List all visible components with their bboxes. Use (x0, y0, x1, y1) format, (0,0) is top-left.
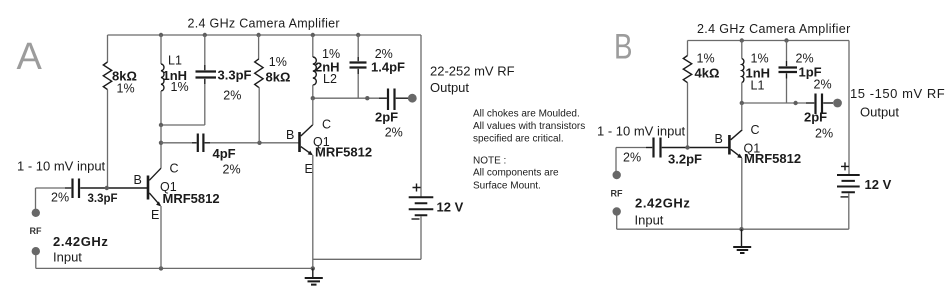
node dot ground junction B (739, 227, 743, 231)
svg-text:C: C (322, 118, 331, 132)
capacitor 4pF coupling (192, 134, 210, 153)
wire ground terminal drop A (35, 255, 37, 268)
svg-text:1.4pF: 1.4pF (371, 60, 405, 75)
svg-text:specified are critical.: specified are critical. (473, 133, 564, 144)
node dot rail B at 1pF (784, 38, 788, 42)
svg-text:2%: 2% (223, 163, 241, 177)
wire battery A bottom vertical (420, 216, 422, 259)
svg-text:3.3pF: 3.3pF (88, 193, 118, 205)
node dot rail A at 1.4pF (356, 33, 360, 37)
svg-text:All components are: All components are (473, 168, 559, 179)
wire input left segment B (616, 147, 646, 149)
svg-text:1%: 1% (269, 55, 287, 69)
wire collector stage 2 (312, 98, 314, 125)
svg-text:E: E (305, 162, 313, 176)
terminal RF input B (613, 171, 621, 179)
wire input RF terminal drop A (35, 188, 37, 209)
wire Vcc rail A (108, 34, 422, 36)
svg-text:A: A (17, 36, 43, 78)
wire battery A top vertical (420, 35, 422, 197)
ground symbol B (733, 229, 751, 253)
svg-text:1%: 1% (171, 80, 189, 94)
svg-text:1%: 1% (751, 52, 769, 66)
wire input RF terminal drop B (615, 148, 617, 172)
svg-text:12 V: 12 V (437, 200, 464, 215)
node dot output line B (793, 101, 797, 105)
wire emitter B down (741, 158, 743, 229)
wire ground terminal drop B (616, 216, 618, 230)
resistor R2 8kOhm bias stage 2 (255, 35, 263, 143)
node dot output line A (365, 96, 369, 100)
wire output line B (742, 102, 806, 104)
node dot output at L2 bottom (311, 96, 315, 100)
svg-text:1 - 10 mV input: 1 - 10 mV input (17, 159, 106, 174)
node dot emitter stage 1 at ground rail (159, 266, 163, 270)
terminal ground input A (32, 247, 40, 255)
svg-text:Input: Input (635, 213, 664, 228)
wire emitter stage 2 down (312, 155, 314, 268)
svg-text:4kΩ: 4kΩ (695, 66, 720, 81)
svg-text:12 V: 12 V (865, 177, 892, 192)
node dot rail A at L2 (311, 33, 315, 37)
wire emitter stage 1 down (160, 206, 162, 268)
svg-text:B: B (286, 128, 294, 142)
capacitor 2pF output coupling B (806, 94, 833, 115)
node dot base node stage 2 (257, 141, 261, 145)
node dot base node B (685, 145, 689, 149)
svg-text:Input: Input (53, 250, 82, 265)
svg-text:2%: 2% (815, 127, 833, 141)
svg-text:2%: 2% (223, 89, 241, 103)
capacitor 2pF output coupling A (379, 89, 408, 111)
wire collector B (741, 103, 743, 130)
node dot 4pF tap (159, 141, 163, 145)
svg-text:B: B (134, 173, 142, 187)
terminal RF input A (32, 209, 40, 217)
svg-text:L1: L1 (168, 54, 182, 68)
node dot base node stage 1 (105, 186, 109, 190)
capacitor 1pF tank B (779, 41, 798, 104)
transistor Q1 B MRF5812 (729, 130, 742, 159)
svg-text:4pF: 4pF (213, 146, 236, 161)
svg-text:2.42GHz: 2.42GHz (635, 196, 691, 211)
wire L1 bottom to 3.3pF bottom (161, 124, 205, 126)
svg-text:All chokes are Moulded.: All chokes are Moulded. (473, 108, 580, 119)
svg-text:2%: 2% (385, 126, 403, 140)
node dot rail A at 8k 2 (256, 33, 260, 37)
capacitor 3.3pF parallel tank stage 1 (196, 35, 217, 125)
ground symbol A (305, 268, 323, 284)
inductor 1nH L1 B (742, 41, 744, 104)
svg-text:15 -150 mV RF: 15 -150 mV RF (850, 86, 945, 101)
node dot ground junction A (311, 266, 315, 270)
terminal RF output A (408, 94, 417, 103)
svg-text:1%: 1% (117, 82, 135, 96)
wire battery B top vertical (848, 41, 850, 176)
transistor Q1 stage 2 MRF5812 (300, 125, 313, 156)
svg-text:C: C (170, 162, 179, 176)
transistor Q1 stage 1 MRF5812 (148, 168, 161, 206)
resistor R1 8kOhm bias stage 1 (103, 35, 111, 90)
wire R1 bottom to base node (107, 90, 109, 188)
svg-text:3.3pF: 3.3pF (218, 68, 252, 83)
svg-text:RF: RF (30, 226, 42, 236)
capacitor 3.3pF input coupling A (65, 179, 148, 199)
svg-text:MRF5812: MRF5812 (163, 191, 220, 206)
svg-text:22-252 mV RF: 22-252 mV RF (430, 64, 515, 79)
svg-text:RF: RF (611, 189, 623, 199)
svg-text:2pF: 2pF (804, 110, 827, 125)
wire battery B bottom vertical (848, 193, 850, 229)
node dot rail A at 3.3pF (203, 33, 207, 37)
svg-text:L2: L2 (323, 72, 337, 86)
wire ground rail A (36, 267, 313, 269)
node dot rail A at L1 (159, 33, 163, 37)
node dot collector node stage 1 (159, 123, 163, 127)
terminal ground input B (613, 207, 621, 215)
inductor L1 1nH (161, 35, 164, 125)
wire input left segment A (36, 187, 66, 189)
svg-text:2.4 GHz Camera Amplifier: 2.4 GHz Camera Amplifier (697, 22, 851, 36)
svg-text:2.4 GHz Camera Amplifier: 2.4 GHz Camera Amplifier (188, 17, 340, 31)
node dot rail B at L1 (740, 38, 744, 42)
wire Vcc rail B (688, 40, 850, 42)
battery 12V A (409, 184, 434, 220)
terminal RF output B (833, 99, 842, 108)
svg-text:L1: L1 (751, 79, 765, 93)
svg-text:2%: 2% (796, 52, 814, 66)
svg-text:MRF5812: MRF5812 (744, 151, 801, 166)
svg-text:2%: 2% (51, 191, 69, 205)
wire collector node to 4pF (161, 142, 192, 144)
wire ground rail B (617, 228, 849, 230)
capacitor 3.2pF input coupling B (646, 138, 729, 158)
wire output line A (313, 97, 379, 99)
svg-text:C: C (751, 123, 760, 137)
svg-text:All values with transistors: All values with transistors (473, 121, 585, 132)
svg-text:2.42GHz: 2.42GHz (53, 234, 109, 249)
svg-text:NOTE :: NOTE : (473, 156, 506, 167)
svg-text:Output: Output (430, 80, 469, 95)
resistor 4kOhm bias B (683, 41, 691, 148)
battery 12V B (837, 162, 860, 197)
capacitor 1.4pF stage 2 tank (350, 35, 367, 98)
svg-text:Output: Output (860, 105, 899, 120)
svg-text:Surface Mount.: Surface Mount. (473, 180, 541, 191)
svg-text:B: B (614, 26, 633, 66)
svg-text:1%: 1% (697, 52, 715, 66)
svg-text:B: B (715, 132, 723, 146)
svg-text:MRF5812: MRF5812 (315, 145, 372, 160)
node dot output at L1 bottom B (740, 101, 744, 105)
svg-text:2%: 2% (623, 151, 641, 165)
wire collector node vertical stage 1 (160, 125, 162, 168)
svg-text:3.2pF: 3.2pF (668, 152, 702, 167)
wire battery A return rail (313, 258, 421, 260)
svg-text:8kΩ: 8kΩ (266, 70, 291, 85)
svg-text:2%: 2% (814, 78, 832, 92)
svg-text:2pF: 2pF (375, 110, 398, 125)
svg-text:E: E (151, 208, 159, 222)
svg-text:1 - 10 mV input: 1 - 10 mV input (597, 124, 686, 139)
wire 4pF to base of stage 2 (210, 142, 299, 144)
inductor L2 2nH stage 2 (313, 35, 317, 98)
